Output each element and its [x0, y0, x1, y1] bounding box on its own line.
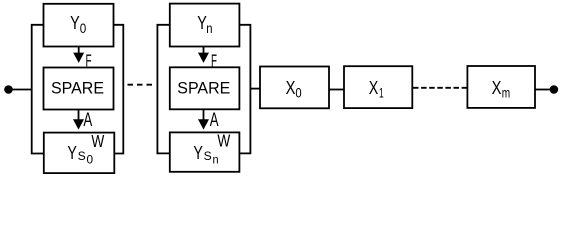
svg-text:0: 0 — [87, 153, 94, 167]
svg-text:W: W — [91, 131, 104, 151]
wire: Xm to right terminal — [535, 89, 551, 91]
block Y0 — [44, 4, 114, 47]
arrow F (Yn to SPARE) — [198, 47, 209, 63]
svg-text:SPARE: SPARE — [51, 80, 104, 98]
block Ysn — [170, 132, 240, 171]
wire: group-n right rail to X0 — [250, 88, 260, 90]
svg-text:X: X — [286, 78, 296, 98]
svg-text:n: n — [206, 21, 212, 36]
svg-text:Y: Y — [193, 143, 203, 163]
wire: group-0 right rail with stubs — [113, 25, 124, 154]
node OUT (right terminal dot) — [550, 85, 559, 94]
arrow F (Y0 to SPARE) — [73, 47, 84, 63]
wire: group-n right rail with stubs — [239, 25, 251, 154]
svg-text:A: A — [83, 110, 92, 131]
svg-text:X: X — [369, 78, 379, 98]
svg-text:A: A — [210, 110, 219, 131]
svg-text:S: S — [78, 149, 86, 163]
svg-text:m: m — [502, 85, 510, 100]
svg-text:n: n — [213, 153, 219, 167]
wire: dashed link X1 to Xm — [413, 87, 467, 89]
block Yn — [170, 4, 240, 47]
svg-text:W: W — [217, 130, 230, 150]
wire: group-0 left rail with stubs — [32, 25, 45, 154]
block X0 — [260, 67, 329, 109]
arrow A (SPARE to Ys0) — [73, 110, 84, 130]
block SPARE (group 0) — [44, 68, 114, 110]
svg-text:S: S — [204, 149, 212, 163]
svg-text:X: X — [492, 78, 502, 98]
block SPARE (group n) — [170, 67, 240, 109]
svg-text:Y: Y — [67, 143, 77, 163]
block Ys0 — [44, 133, 115, 174]
block Xm — [467, 66, 535, 108]
block X1 — [344, 66, 412, 108]
svg-text:0: 0 — [80, 21, 87, 36]
wire: group-n left rail with stubs — [157, 25, 170, 154]
svg-text:SPARE: SPARE — [177, 80, 230, 98]
wire: X0 to X1 — [329, 89, 344, 91]
svg-text:0: 0 — [295, 86, 301, 101]
svg-text:Y: Y — [70, 13, 80, 33]
wire: dashed link group 0 to group n — [128, 84, 156, 86]
wire: left terminal to group-0 left rail — [11, 89, 32, 91]
arrow A (SPARE to Ysn) — [198, 109, 209, 129]
node IN (left terminal dot) — [4, 85, 13, 94]
svg-text:1: 1 — [379, 85, 384, 100]
